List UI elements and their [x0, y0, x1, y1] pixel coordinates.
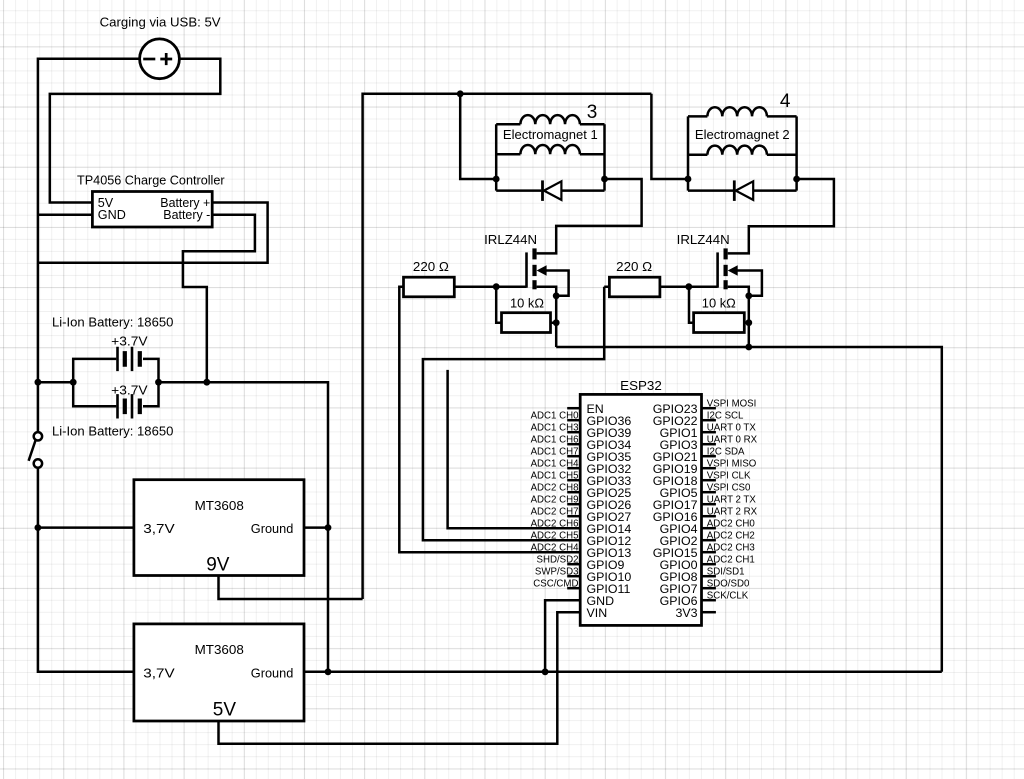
svg-text:SDO/SD0: SDO/SD0: [707, 578, 750, 589]
svg-text:3,7V: 3,7V: [143, 522, 175, 536]
svg-text:MT3608: MT3608: [195, 643, 244, 657]
svg-text:10 kΩ: 10 kΩ: [702, 297, 736, 311]
svg-text:VIN: VIN: [587, 606, 608, 620]
svg-text:SCK/CLK: SCK/CLK: [707, 590, 749, 601]
svg-text:IRLZ44N: IRLZ44N: [484, 233, 537, 247]
svg-text:+3.7V: +3.7V: [111, 335, 148, 349]
svg-text:GND: GND: [98, 208, 126, 222]
svg-text:ADC1 CH6: ADC1 CH6: [531, 434, 579, 445]
svg-text:ADC2 CH1: ADC2 CH1: [707, 554, 755, 565]
svg-text:ADC1 CH5: ADC1 CH5: [531, 470, 579, 481]
svg-text:ADC1 CH3: ADC1 CH3: [531, 422, 579, 433]
svg-text:220 Ω: 220 Ω: [616, 260, 652, 274]
svg-text:VSPI CLK: VSPI CLK: [707, 470, 751, 481]
svg-text:ADC2 CH5: ADC2 CH5: [531, 530, 579, 541]
svg-text:ADC1 CH4: ADC1 CH4: [531, 458, 580, 469]
svg-text:ADC1 CH0: ADC1 CH0: [531, 410, 580, 421]
svg-text:ADC2 CH0: ADC2 CH0: [707, 518, 756, 529]
svg-text:ADC2 CH8: ADC2 CH8: [531, 482, 579, 493]
svg-text:UART 0 TX: UART 0 TX: [707, 422, 757, 433]
svg-text:VSPI CS0: VSPI CS0: [707, 482, 751, 493]
svg-text:ADC2 CH6: ADC2 CH6: [531, 518, 579, 529]
svg-text:ADC2 CH7: ADC2 CH7: [531, 506, 579, 517]
svg-text:VSPI MISO: VSPI MISO: [707, 458, 757, 469]
svg-text:MT3608: MT3608: [195, 499, 244, 513]
svg-text:SHD/SD2: SHD/SD2: [537, 554, 579, 565]
svg-text:Ground: Ground: [251, 666, 293, 680]
svg-text:VSPI MOSI: VSPI MOSI: [707, 398, 757, 409]
svg-text:9V: 9V: [206, 555, 230, 576]
svg-text:CSC/CMD: CSC/CMD: [533, 578, 578, 589]
svg-text:IRLZ44N: IRLZ44N: [677, 233, 730, 247]
svg-text:ADC2 CH4: ADC2 CH4: [531, 542, 580, 553]
svg-text:Li-Ion Battery: 18650: Li-Ion Battery: 18650: [52, 316, 173, 330]
svg-text:I2C SCL: I2C SCL: [707, 410, 744, 421]
svg-text:UART 2 RX: UART 2 RX: [707, 506, 758, 517]
svg-text:Carging via USB: 5V: Carging via USB: 5V: [100, 15, 222, 29]
svg-text:ADC2 CH9: ADC2 CH9: [531, 494, 579, 505]
svg-text:I2C SDA: I2C SDA: [707, 446, 745, 457]
svg-text:Electromagnet 2: Electromagnet 2: [695, 128, 790, 142]
svg-text:Ground: Ground: [251, 522, 293, 536]
svg-text:TP4056 Charge Controller: TP4056 Charge Controller: [77, 173, 225, 187]
svg-text:3: 3: [587, 102, 598, 123]
svg-text:ESP32: ESP32: [620, 379, 662, 393]
svg-text:Li-Ion Battery: 18650: Li-Ion Battery: 18650: [52, 425, 173, 439]
svg-text:3V3: 3V3: [675, 606, 697, 620]
svg-text:3,7V: 3,7V: [143, 666, 175, 680]
svg-text:5V: 5V: [213, 700, 237, 721]
svg-text:220 Ω: 220 Ω: [413, 260, 449, 274]
svg-text:10 kΩ: 10 kΩ: [510, 297, 544, 311]
svg-text:SWP/SD3: SWP/SD3: [535, 566, 579, 577]
svg-text:4: 4: [780, 91, 791, 112]
svg-text:SDI/SD1: SDI/SD1: [707, 566, 745, 577]
svg-text:ADC2 CH2: ADC2 CH2: [707, 530, 755, 541]
svg-text:ADC2 CH3: ADC2 CH3: [707, 542, 755, 553]
svg-text:Electromagnet 1: Electromagnet 1: [503, 128, 598, 142]
svg-text:UART 0 RX: UART 0 RX: [707, 434, 758, 445]
svg-text:Battery -: Battery -: [163, 208, 210, 222]
svg-text:UART 2 TX: UART 2 TX: [707, 494, 757, 505]
svg-text:ADC1 CH7: ADC1 CH7: [531, 446, 579, 457]
